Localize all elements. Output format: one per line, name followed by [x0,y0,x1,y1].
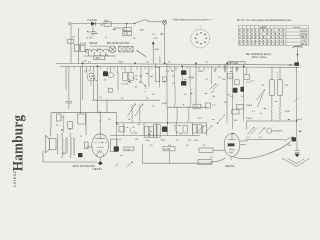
cap blob [233,88,238,93]
tall resistor [155,67,159,81]
speaker LS [50,128,52,137]
socket pins [200,32,201,33]
svg-text:Lorenz: Lorenz [12,171,17,187]
selector wafer circle [109,46,116,53]
svg-text:4700: 4700 [189,77,195,80]
capacitor C under diode [92,26,94,32]
small box [108,88,112,92]
small box [163,77,167,81]
divider resistors [272,67,280,80]
cap circle [267,128,272,133]
diode D1 [91,22,95,26]
tube 1 electrodes [95,134,105,139]
wire verticals from bus [82,63,84,100]
arrow up feed [152,44,154,63]
switch curve [140,82,146,89]
antenna coupling boxes left [68,39,74,44]
svg-text:5000: 5000 [161,140,167,142]
dashed divider [277,72,279,86]
antenna switch [245,139,284,141]
bus B1 main HT rail [56,63,299,65]
bus y123.3 [247,120,297,122]
svg-text:20000: 20000 [246,118,253,120]
antenna terminal [68,22,70,24]
earth ground [295,154,300,158]
table frame [239,25,309,45]
table row lines [239,29,309,42]
variable coil pair with arrows [132,105,133,123]
svg-text:KOL29: KOL29 [88,18,98,22]
svg-text:470: 470 [96,57,101,60]
svg-text:0,1µF: 0,1µF [125,149,131,151]
svg-text:110 125 150 220 240: 110 125 150 220 240 [90,46,110,48]
svg-text:(0): (0) [160,33,163,36]
detail boxes right of IF [228,74,234,79]
output tube U1 envelope [92,134,109,157]
wire IF link y107.2 [167,106,207,108]
trimmer arrows [210,84,219,90]
speaker return wire [42,150,44,162]
node dots [97,65,99,67]
resistor boxes row [119,127,124,132]
wire lamp drop x164.6 [164,24,166,63]
cathode swoosh to switch [233,142,291,159]
resistor pair boxes [123,72,128,80]
wire bottom mid y163.2 [143,162,212,164]
svg-text:Hamburg: Hamburg [10,115,27,171]
svg-text:EIN: EIN [155,49,159,51]
dark label strip on bus [228,62,245,65]
verticals between buses [122,123,124,136]
blocking caps dark [181,70,186,75]
svg-text:5000: 5000 [119,61,125,63]
stub x159.9 [159,57,161,64]
svg-text:Röhren: Röhren [293,26,301,29]
top cap tick [231,133,235,135]
svg-text:BDL4W: BDL4W [90,43,99,45]
IF-1 coils [175,86,176,104]
coupling box near tube2 [237,105,244,110]
box with label bottom [124,147,134,151]
wire antenna vertical x71 [70,24,72,64]
svg-text:4700: 4700 [162,103,168,105]
wire x78.5 [78,28,80,63]
wire mid bus y135.5 [110,135,200,137]
electrodes [228,134,236,140]
pot arrows row [248,127,258,134]
scattered value labels for texture [56,29,303,160]
svg-text:2M: 2M [224,102,227,104]
connector x107 [106,100,108,113]
svg-text:a g k f: a g k f [260,27,266,29]
rectifier boxes [119,46,126,52]
IF-2 transformer coils [177,108,178,120]
coil squiggle [117,73,118,91]
svg-text:4µ 50: 4µ 50 [164,148,171,151]
svg-text:Die mit * bez. Werte gelten be: Die mit * bez. Werte gelten bei Drahtfun… [237,19,293,22]
wire top rail y23.5 [71,23,135,25]
svg-text:AUS: AUS [140,29,145,32]
fuse box [94,56,105,60]
anode line into tube2 [232,93,234,130]
wire to lamp [149,21,163,23]
screen feed x68.9 with cap [68,66,70,101]
svg-text:Bei Drahtfunk-Empf.: Bei Drahtfunk-Empf. [246,52,271,56]
volume pot tall box [116,113,118,152]
right return vertical [296,66,298,137]
switch S2 [137,50,138,51]
dial lamp [163,20,167,24]
wire mid bus y122.9 [117,122,207,124]
grid stopper zigzags near tube2 [198,126,212,132]
grid feed label box [199,148,213,152]
voltage selector scallops [86,49,109,52]
svg-text:UEL51: UEL51 [300,43,308,46]
cap blob right [240,87,244,92]
capacitor blob dark [103,71,108,76]
bus B2 second rail [60,65,299,68]
svg-text:NETZ 110/125/220V: NETZ 110/125/220V [73,165,96,168]
socket circle [191,29,210,48]
cell figures [239,27,285,46]
wire left mid bus y112.7 [51,112,117,114]
svg-text:5000: 5000 [198,71,204,73]
svg-text:1M: 1M [222,79,225,81]
envelope [224,133,240,156]
svg-text:— Röhrenfassung von unten gese: — Röhrenfassung von unten gesehen — [171,19,213,22]
box with label [244,75,250,80]
divider pot zigzag right [258,90,265,108]
cathode resistor and cap [84,142,88,149]
wire drop to box stack [126,24,128,28]
IF can label box [193,104,201,108]
node junction x126.7 [126,23,127,24]
svg-text:4,50: 4,50 [124,33,129,36]
coils below [271,109,272,121]
wire anode x97.5 to output tube [98,67,101,134]
wire under selector [84,55,116,57]
wire bottom left y162 [43,161,97,163]
coil pot circle [87,73,95,81]
table column lines [243,25,287,45]
mains entry box+circle left of scallops [81,45,85,51]
svg-text:BDL4W BDL2W EZ12: BDL4W BDL2W EZ12 [107,43,130,45]
svg-text:0,5 1M: 0,5 1M [121,84,128,86]
output transformer coils [62,138,63,156]
antenna symbol [297,46,299,62]
extra node dots [134,62,136,64]
links to coils [272,95,280,108]
trimmer circle [108,72,113,77]
svg-text:70000: 70000 [246,105,253,107]
cathode network box [80,66,82,114]
wire mid bus y100.2 [92,99,160,101]
svg-text:0,1*: 0,1* [251,81,255,83]
small coil horizontal [273,130,283,132]
switch S1 mains [134,23,135,24]
svg-text:1M: 1M [135,139,138,141]
svg-text:UEL51: UEL51 [225,164,235,168]
coupling cluster above tube [50,113,52,128]
ground stem with cap [296,141,298,150]
svg-text:4706: 4706 [285,111,291,113]
resistor R box [104,22,111,26]
svg-text:Werte * gelten: Werte * gelten [252,56,267,59]
svg-text:WH30E: WH30E [229,62,238,65]
svg-text:0,1µ: 0,1µ [104,20,109,22]
agc label box [198,160,212,165]
capacitor box stack [123,28,132,31]
